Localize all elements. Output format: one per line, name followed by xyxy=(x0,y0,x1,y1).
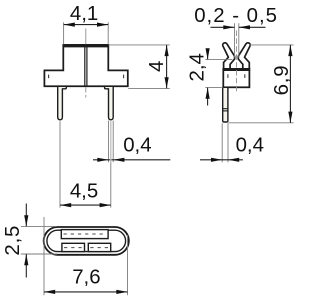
dimension 4,5 line xyxy=(60,204,111,206)
side body left tick xyxy=(227,74,229,78)
dimension 4,5 arrow left xyxy=(60,203,71,207)
dimension 0,2-0,5 line right xyxy=(239,26,266,28)
dimension 0,4 side extension lines xyxy=(221,123,223,162)
dimension 4 arrow up xyxy=(165,45,169,56)
dimension 4,1 line xyxy=(64,24,109,26)
dimension 0,4 front arrow right xyxy=(113,158,124,162)
dimension 4,5 extension lines xyxy=(59,121,61,207)
side body right tick xyxy=(244,74,246,78)
front centre line below xyxy=(85,87,87,98)
bottom left bar hidden dashes xyxy=(64,247,83,249)
dimension 0,4 front line xyxy=(93,159,170,161)
bottom outer stadium xyxy=(44,227,129,255)
dimension 4 extension top xyxy=(109,44,170,46)
bottom left contact bar xyxy=(62,243,85,251)
dimension 0,2-0,5 arrow right xyxy=(239,25,250,29)
dimension 0,2-0,5 extension lines xyxy=(234,23,236,57)
dimension 7,6 extension left xyxy=(43,217,45,295)
side pin crimp tick upper xyxy=(223,108,228,110)
front body T-silhouette xyxy=(44,45,127,86)
side pin crimp tick lower xyxy=(223,110,228,112)
bottom inner stadium xyxy=(47,230,126,251)
svg-text:6,9: 6,9 xyxy=(271,65,293,96)
dimension 6,9 extension bottom xyxy=(228,122,293,124)
dimension 0,2-0,5 line left xyxy=(211,26,235,28)
dimension 2,5 arrow down xyxy=(24,215,28,226)
svg-text:2,4: 2,4 xyxy=(187,53,209,81)
dimension 2,5 tail top xyxy=(25,204,27,227)
front top thick edge xyxy=(63,45,109,48)
dimension 7,6 arrow left xyxy=(44,290,55,294)
svg-text:4: 4 xyxy=(146,61,168,72)
svg-text:2,5: 2,5 xyxy=(2,225,24,256)
side clip left arm xyxy=(223,43,235,69)
bottom right bar hidden dashes xyxy=(90,247,108,249)
side centre line xyxy=(235,31,237,94)
side body box xyxy=(223,69,249,87)
front right pin xyxy=(105,86,114,120)
front left pin xyxy=(58,86,67,120)
bottom top contact bar xyxy=(61,230,108,239)
svg-text:0,4: 0,4 xyxy=(123,135,151,157)
side pin xyxy=(223,87,228,122)
side body top thick edge xyxy=(223,68,251,71)
dimension 6,9 line xyxy=(289,45,291,123)
svg-text:0,4: 0,4 xyxy=(236,135,264,157)
dimension 4,1 arrow right xyxy=(97,23,108,27)
dimension 4 extension bottom xyxy=(128,87,170,89)
dimension 0,4 side line xyxy=(200,159,243,161)
dimension 0,4 side arrow left xyxy=(211,158,222,162)
dimension 2,4 arrow down xyxy=(206,48,210,59)
dimension 2,4 extension bottom xyxy=(205,87,223,89)
dimension 6,9 arrow up xyxy=(288,45,292,56)
dimension 6,9 extension top xyxy=(250,44,294,46)
dimension 2,5 arrow up xyxy=(24,254,28,265)
svg-text:0,2 - 0,5: 0,2 - 0,5 xyxy=(194,5,278,27)
bottom top bar hidden dashes xyxy=(64,233,107,235)
dimension 2,5 extension bottom xyxy=(21,253,57,255)
dimension 2,4 tail bottom xyxy=(207,88,209,106)
dimension 2,5 tail bottom xyxy=(25,254,27,278)
dimension 2,4 arrow up xyxy=(206,88,210,99)
dimension 0,4 front extension lines xyxy=(108,121,110,163)
dimension 2,5 extension top xyxy=(21,225,57,227)
dimension 0,2-0,5 arrow left xyxy=(223,25,234,29)
bottom right contact bar xyxy=(88,243,110,251)
front centre line above xyxy=(85,29,87,45)
front slot left line xyxy=(84,45,86,85)
svg-text:7,6: 7,6 xyxy=(72,266,100,288)
svg-text:4,5: 4,5 xyxy=(70,181,98,203)
dimension 2,4 extension top xyxy=(205,58,232,60)
dimension 4 arrow down xyxy=(165,77,169,88)
dimension 2,4 tail top xyxy=(207,49,209,60)
dimension 7,6 arrow right xyxy=(116,290,127,294)
dimension 6,9 arrow down xyxy=(288,112,292,123)
dimension 4,1 arrow left xyxy=(64,23,75,27)
dimension 4 line xyxy=(166,45,168,89)
dimension 7,6 extension right xyxy=(127,235,129,295)
dimension 0,4 side arrow right xyxy=(228,158,239,162)
dimension 4,5 arrow right xyxy=(100,203,111,207)
dimension 7,6 line xyxy=(44,291,128,293)
front base left tick xyxy=(48,75,50,79)
front base right tick xyxy=(123,75,125,79)
svg-text:4,1: 4,1 xyxy=(70,3,98,25)
side clip right arm xyxy=(238,43,250,69)
dimension 4,1 extension lines xyxy=(63,22,65,44)
front slot right line xyxy=(86,45,88,85)
dimension 0,4 front arrow left xyxy=(97,158,108,162)
